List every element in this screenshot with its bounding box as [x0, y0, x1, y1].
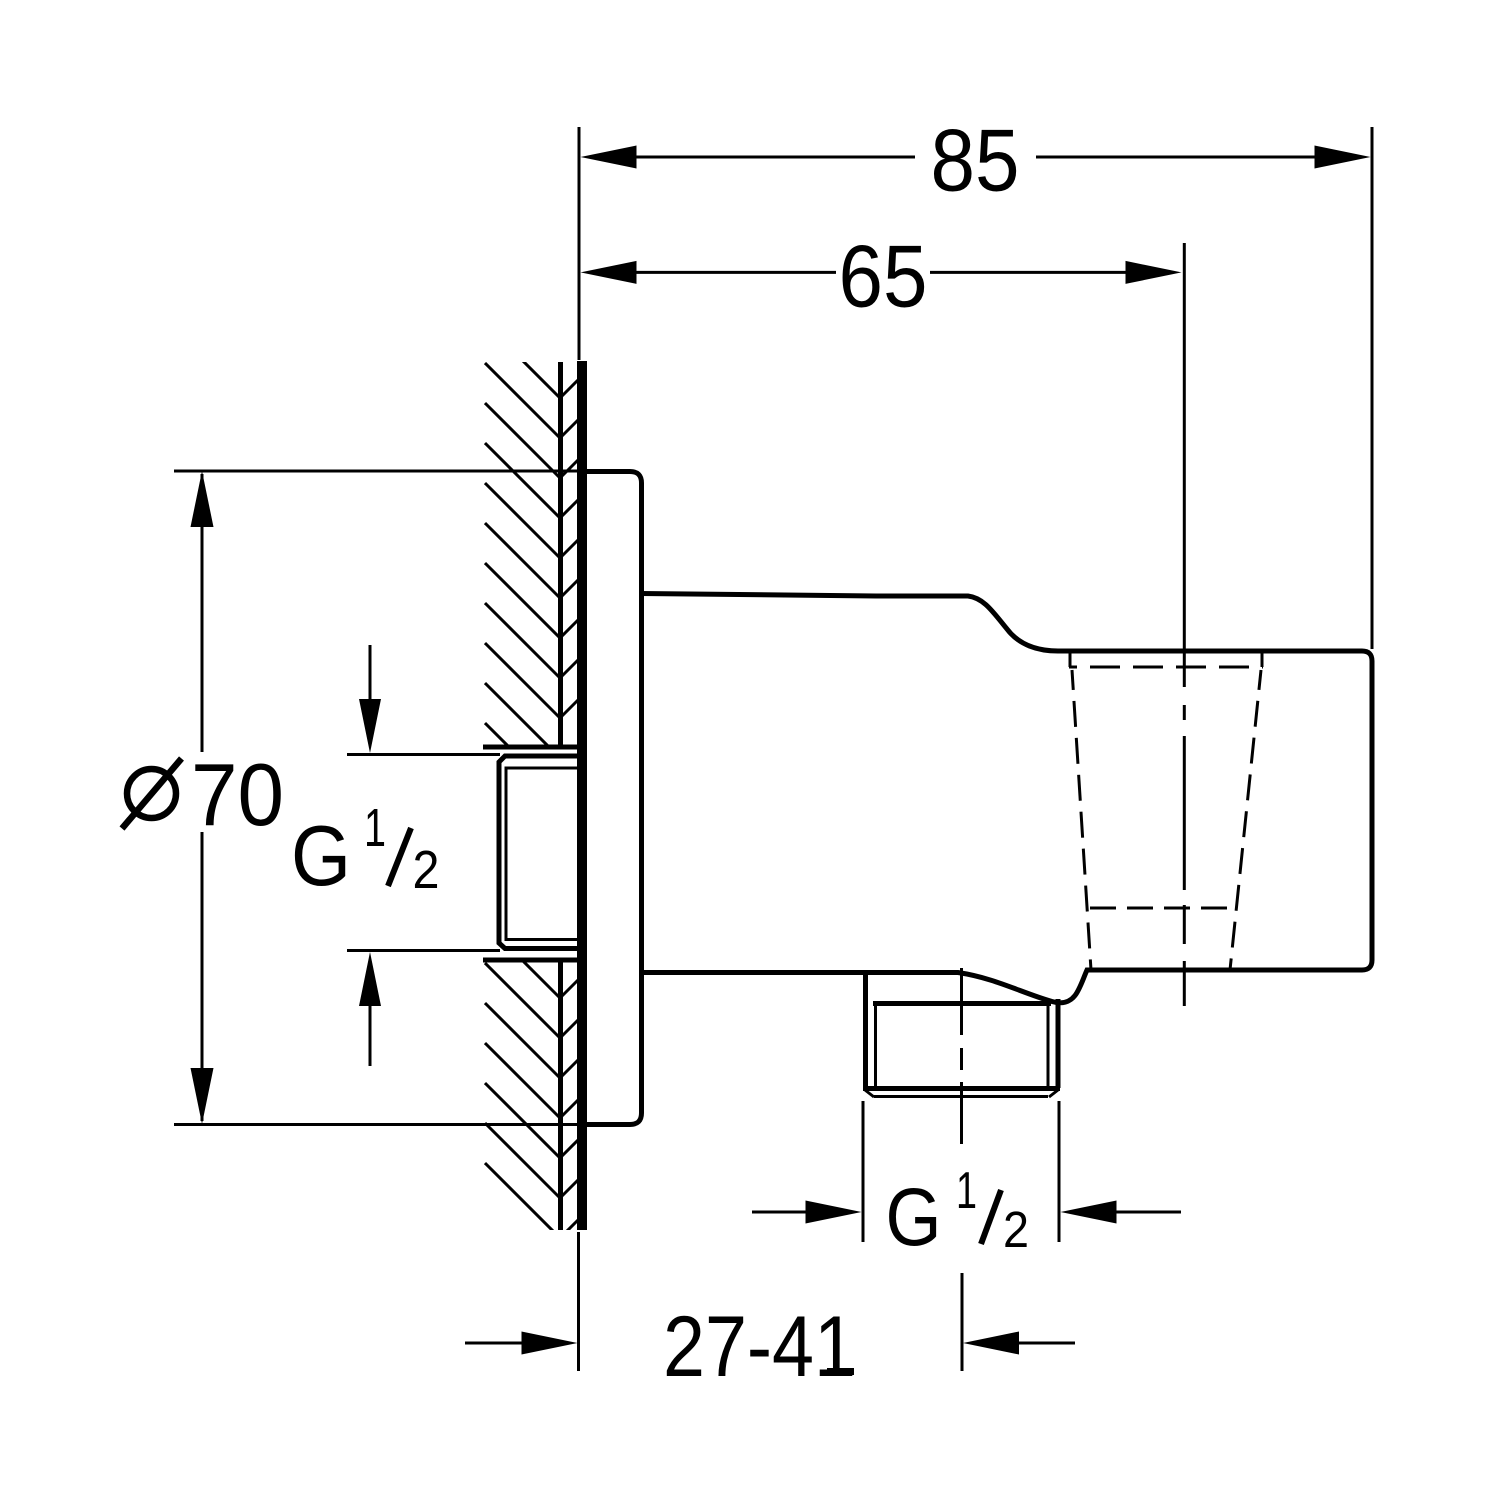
dim 65 line [636, 271, 1126, 274]
wall inner thin line upper [558, 362, 563, 746]
svg-text:2: 2 [413, 840, 440, 900]
dim D70 top arrow [191, 471, 214, 527]
wall hatching [485, 323, 578, 1238]
holder cup left stub [1069, 653, 1072, 667]
wall thread slash [388, 828, 411, 886]
outlet nipple shoulder line [873, 1001, 1051, 1006]
dim D70 dimension line [201, 474, 204, 1121]
dim D70 bottom arrow [191, 1068, 214, 1124]
wall thread lower extension line [347, 949, 500, 952]
wall surface line [577, 361, 587, 1230]
wall thread upper extension line [347, 753, 500, 756]
body outline [641, 594, 1372, 1003]
outlet nipple inner left [874, 1005, 877, 1088]
dim 27-41 left arrow [465, 1342, 523, 1345]
outlet nipple chamfer left [865, 1090, 874, 1097]
outlet G12 right arrow [1116, 1211, 1181, 1214]
outlet slash [981, 1190, 1001, 1244]
dim 65 left arrow [581, 261, 637, 284]
dim D70 bottom extension line [174, 1123, 584, 1126]
wall inner thin line lower [558, 962, 563, 1230]
holder cup hidden left edge (dashed) [1072, 670, 1091, 970]
svg-text:1: 1 [956, 1162, 977, 1220]
diameter symbol [127, 769, 176, 818]
outlet nipple bottom outer [863, 1086, 1060, 1091]
outlet G12 right extension line [1058, 1101, 1061, 1242]
svg-text:27-41: 27-41 [663, 1299, 856, 1395]
dim 85 right extension line [1371, 127, 1374, 649]
serif foot of digit 1 [827, 1368, 854, 1375]
wall thread lower arrow [369, 1004, 372, 1066]
outlet G12 left arrow [752, 1211, 807, 1214]
svg-text:65: 65 [839, 227, 928, 326]
dim 27-41 left extension line [577, 1232, 580, 1371]
svg-text:70: 70 [191, 745, 284, 844]
dim D70 top extension line [174, 470, 584, 473]
outlet nipple chamfer right [1049, 1090, 1058, 1097]
outlet nipple bottom inner [874, 1095, 1048, 1098]
wall hole bottom break line [483, 958, 580, 963]
dim 85 left extension line [578, 127, 581, 360]
wall thread G1/2 inner lines [506, 768, 580, 940]
holder cup axis line [1183, 243, 1186, 1006]
svg-text:2: 2 [1003, 1201, 1029, 1258]
dim 85 line [636, 156, 1315, 159]
outlet nipple centerline [960, 968, 963, 1144]
svg-text:85: 85 [931, 111, 1020, 210]
outlet nipple right outer [1056, 999, 1061, 1088]
wall hole top break line [483, 745, 580, 750]
outlet G12 left extension line [862, 1101, 865, 1242]
holder cup hidden top edge (dashed) [1069, 666, 1263, 669]
outlet nipple left outer [863, 970, 868, 1088]
wall thread upper arrow [369, 645, 372, 701]
escutcheon flange [581, 472, 642, 1125]
outlet nipple inner right [1047, 1005, 1050, 1088]
svg-text:G: G [291, 809, 351, 904]
dim 85 right arrow [1315, 146, 1371, 169]
holder cup hidden right edge (dashed) [1230, 670, 1261, 970]
svg-text:G: G [886, 1172, 942, 1263]
holder cup right stub [1261, 653, 1264, 667]
dim 27-41 right extension line [961, 1273, 964, 1371]
svg-text:1: 1 [364, 798, 386, 858]
dim 65 right arrow [1126, 261, 1182, 284]
dim 85 left arrow [581, 146, 637, 169]
dim 27-41 right arrow [1018, 1342, 1075, 1345]
holder cup hidden bottom line (dashed) [1090, 907, 1231, 910]
wall thread G1/2 outer outline [499, 756, 580, 949]
